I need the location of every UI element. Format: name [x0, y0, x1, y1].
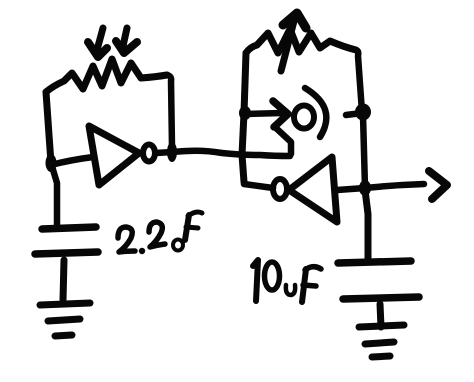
wire: right loop left rail [242, 53, 246, 182]
ground G1 [40, 303, 90, 336]
label: 10uF value text [253, 260, 321, 302]
wire: U1 output across to right circuit [156, 151, 290, 156]
arc (right of circle) [305, 88, 326, 137]
op-amp/inverter U2 (triangle, points left) [289, 157, 337, 222]
light arrow A1 (left, onto photoresistor) [88, 28, 107, 57]
label: 2.2uF value text [118, 212, 202, 254]
potentiometer arrow (wiper, up-right) [281, 13, 306, 71]
wire: left rail (R1 left end down to input node) [46, 92, 51, 163]
node: junction dot on left rail (arrow feed) [239, 106, 251, 120]
capacitor C1 bottom lead [63, 260, 64, 300]
wire: U2 output bubble to left rail [244, 184, 273, 188]
potentiometer R2 (zigzag, top of right loop) [246, 29, 356, 53]
capacitor C2 bottom lead [380, 304, 381, 327]
arrow into lamp/circle [246, 101, 288, 127]
op-amp/inverter U1 (triangle, points right) [89, 126, 139, 185]
capacitor C1 top lead [51, 163, 57, 225]
wire: U2 input to output arrow [337, 171, 447, 199]
light arrow A2 (right, onto photoresistor) [116, 28, 137, 53]
bubble of U2 output [273, 179, 287, 199]
stub wire to circle node [346, 113, 362, 115]
ground G2 [359, 325, 404, 357]
node: inverter U1 input junction [46, 154, 57, 172]
wire: input node to U1 input [51, 157, 93, 165]
capacitor C2 top lead [365, 190, 368, 259]
wire: right rail down to crossing [363, 115, 365, 188]
capacitor C2 (10uF) plates [338, 261, 419, 299]
circle tail stroke [277, 129, 291, 154]
capacitor C1 (2.2uF) plates [35, 227, 98, 254]
node: big junction dot right rail [355, 104, 371, 121]
wire: right loop right edge (top) [356, 50, 362, 112]
bubble of U1 output [143, 145, 155, 162]
node: U1 output junction dot [167, 142, 177, 162]
wire: left box right edge (R1 to output node) [167, 75, 172, 147]
node: junction blob at rail crossing [359, 180, 371, 196]
photoresistor R1 (zigzag, top of left loop) [46, 59, 167, 92]
circle element (bulb) [294, 106, 314, 129]
